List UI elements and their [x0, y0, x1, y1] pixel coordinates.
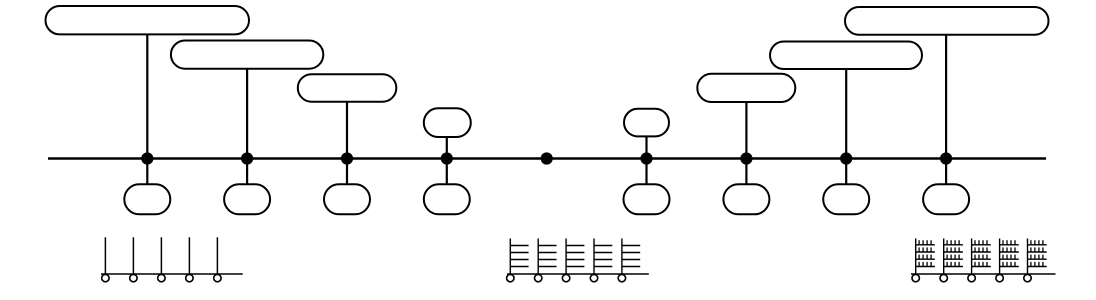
blob B6 — [624, 184, 670, 214]
blob B2 — [224, 184, 270, 214]
wire middle comb stem 4 with ticks — [594, 239, 612, 275]
wire node P7 to blob A7 — [745, 102, 747, 159]
node right comb leaf 4 — [996, 274, 1003, 281]
wire baseline of left broom figure — [101, 273, 243, 275]
wire middle comb stem 3 with ticks — [566, 239, 584, 275]
wire node P4 to blob A4 — [446, 137, 448, 159]
wire main spine path — [48, 157, 1046, 160]
blob A4 — [424, 108, 471, 137]
blob A3 — [298, 74, 397, 102]
node right comb leaf 5 — [1024, 274, 1031, 281]
node left broom leaf 1 — [102, 274, 109, 281]
wire right comb stem 4 with toothed ticks — [1000, 239, 1019, 275]
wire right comb stem 1 with toothed ticks — [916, 239, 935, 275]
wire node P2 to blob A2 — [246, 69, 248, 159]
node left broom leaf 5 — [214, 274, 221, 281]
node middle comb leaf 4 — [590, 274, 597, 281]
node left broom leaf 2 — [130, 274, 137, 281]
wire node P8 to blob A8 — [845, 69, 847, 159]
blob B7 — [723, 184, 769, 214]
wire node P6 to blob B6 — [645, 159, 647, 185]
node middle comb leaf 3 — [562, 274, 569, 281]
wire node P9 to blob A9 — [945, 35, 947, 159]
blob B4 — [424, 184, 470, 214]
wire middle comb stem 2 with ticks — [538, 239, 556, 275]
wire right comb stem 5 with toothed ticks — [1028, 239, 1047, 275]
wire middle comb stem 1 with ticks — [510, 239, 528, 275]
node P5 — [541, 152, 553, 164]
wire right comb stem 3 with toothed ticks — [972, 239, 991, 275]
wire middle comb stem 5 with ticks — [622, 239, 640, 275]
node right comb leaf 3 — [968, 274, 975, 281]
wire left broom stem 1 — [104, 237, 106, 274]
node P8 — [840, 152, 852, 164]
wire node P6 to blob A6 — [645, 136, 647, 158]
node P1 — [141, 152, 153, 164]
node left broom leaf 3 — [158, 274, 165, 281]
blob B8 — [823, 184, 869, 214]
blob A2 — [171, 41, 323, 69]
node right comb leaf 2 — [940, 274, 947, 281]
node middle comb leaf 2 — [535, 274, 542, 281]
wire node P7 to blob B7 — [745, 159, 747, 185]
node P9 — [940, 152, 952, 164]
wire right comb stem 2 with toothed ticks — [944, 239, 963, 275]
node middle comb leaf 5 — [618, 274, 625, 281]
wire node P3 to blob A3 — [346, 102, 348, 159]
node P4 — [441, 152, 453, 164]
wire left broom stem 3 — [160, 237, 162, 274]
blob A7 — [697, 74, 795, 102]
wire node P9 to blob B9 — [945, 159, 947, 185]
wire left broom stem 2 — [132, 237, 134, 274]
wire baseline of middle comb figure — [507, 273, 649, 275]
blob A1 — [46, 6, 250, 34]
blob B3 — [324, 184, 370, 214]
wire node P3 to blob B3 — [346, 159, 348, 185]
node right comb leaf 1 — [912, 274, 919, 281]
node middle comb leaf 1 — [507, 274, 514, 281]
blob A6 — [624, 109, 669, 137]
wire node P1 to blob A1 — [146, 34, 148, 158]
blob A9 — [845, 7, 1049, 35]
wire node P8 to blob B8 — [845, 159, 847, 185]
blob B1 — [124, 184, 170, 214]
blob A8 — [770, 42, 922, 70]
wire baseline of right comb figure — [911, 273, 1056, 275]
wire left broom stem 5 — [216, 237, 218, 274]
node left broom leaf 4 — [186, 274, 193, 281]
blob B9 — [923, 184, 969, 214]
node P7 — [740, 152, 752, 164]
wire node P4 to blob B4 — [446, 159, 448, 185]
node P6 — [640, 152, 652, 164]
node P2 — [241, 152, 253, 164]
wire node P1 to blob B1 — [146, 159, 148, 185]
wire left broom stem 4 — [188, 237, 190, 274]
wire node P2 to blob B2 — [246, 159, 248, 185]
node P3 — [341, 152, 353, 164]
